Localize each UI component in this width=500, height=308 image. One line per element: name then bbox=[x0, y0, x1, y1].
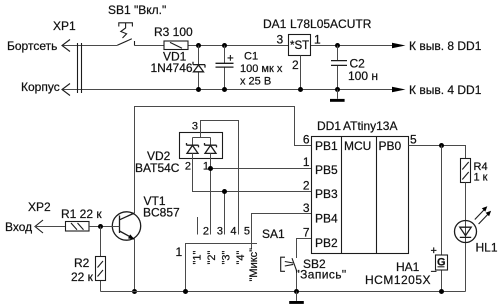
node junction C1 bottom bbox=[222, 87, 227, 92]
svg-text:R3 100: R3 100 bbox=[154, 25, 193, 39]
svg-text:PB5: PB5 bbox=[315, 163, 338, 177]
wire SA1 Микс to DD1 PB4 bbox=[252, 214, 312, 250]
node junction SA1 pin 1 / ground rail bbox=[183, 289, 188, 294]
svg-text:BAT54C: BAT54C bbox=[135, 161, 180, 175]
microcontroller DD1 bbox=[312, 137, 409, 254]
svg-text:1 к: 1 к bbox=[474, 172, 488, 184]
svg-text:Бортсеть: Бортсеть bbox=[7, 39, 57, 53]
svg-text:"3": "3" bbox=[221, 250, 233, 264]
wire SB2 to ground rail bbox=[296, 272, 298, 292]
wire DA1 pin 2 to bottom rail bbox=[300, 56, 302, 90]
node junction C1 top bbox=[222, 43, 227, 48]
svg-text:22 к: 22 к bbox=[71, 270, 94, 284]
resistor R4 bbox=[461, 159, 471, 183]
svg-text:6: 6 bbox=[303, 133, 310, 147]
svg-text:3: 3 bbox=[277, 33, 284, 47]
svg-text:C1: C1 bbox=[244, 51, 258, 63]
resistor R3 bbox=[164, 41, 188, 50]
svg-text:HA1: HA1 bbox=[396, 260, 420, 274]
resistor R1 bbox=[66, 222, 90, 232]
svg-text:4: 4 bbox=[230, 226, 236, 238]
node junction C2 bottom bbox=[335, 87, 340, 92]
svg-text:DA1: DA1 bbox=[263, 17, 287, 31]
voltage regulator DA1 bbox=[289, 35, 311, 56]
wire R1 to base node bbox=[89, 226, 101, 228]
wire VT1 emitter to bottom rail bbox=[134, 239, 136, 291]
svg-text:MCU: MCU bbox=[344, 139, 371, 153]
svg-text:3: 3 bbox=[303, 201, 310, 215]
zener diode VD1 bbox=[193, 62, 205, 72]
node junction PB3 / SA1 bbox=[222, 189, 227, 194]
svg-text:К выв. 4 DD1: К выв. 4 DD1 bbox=[409, 83, 482, 97]
wire XP2 to R1 bbox=[35, 226, 66, 228]
node junction VD1 bottom bbox=[196, 87, 201, 92]
svg-text:5: 5 bbox=[244, 226, 250, 238]
node junction PB0 / HA1 bbox=[439, 143, 444, 148]
node arrow to pin 4 DD1 bbox=[392, 87, 406, 93]
svg-text:+: + bbox=[431, 245, 437, 257]
wire HA1 branch bbox=[441, 146, 443, 292]
wire R2 branch bbox=[100, 227, 102, 292]
svg-text:ATtiny13A: ATtiny13A bbox=[343, 119, 397, 133]
svg-text:1N4746: 1N4746 bbox=[151, 61, 193, 75]
wire R4 to HL1 and bottom rail bbox=[465, 183, 467, 292]
svg-text:HL1: HL1 bbox=[476, 241, 498, 255]
node junction R1 / R2 / VT1 base bbox=[98, 224, 103, 229]
buzzer HA1 bbox=[431, 245, 448, 278]
svg-text:2: 2 bbox=[292, 58, 299, 72]
svg-text:"Запись": "Запись" bbox=[296, 268, 347, 282]
wire VD2 pin 3 to SA1 bbox=[201, 121, 239, 235]
value 100 мк х 25 В bbox=[240, 63, 283, 88]
capacitor C2 bbox=[331, 61, 347, 66]
wire C1 branch bbox=[224, 46, 226, 90]
svg-text:HCM1205X: HCM1205X bbox=[365, 273, 431, 287]
svg-text:"4": "4" bbox=[235, 250, 247, 264]
svg-text:PB0: PB0 bbox=[379, 139, 402, 153]
svg-text:PB2: PB2 bbox=[315, 236, 338, 250]
switch SA1 common bus to ground rail bbox=[186, 244, 258, 292]
svg-text:XP2: XP2 bbox=[28, 200, 51, 214]
svg-text:2: 2 bbox=[203, 226, 209, 238]
ground below C2 bbox=[330, 90, 345, 102]
wire VD2 pin 1 to DD1 PB5 and SA1 bbox=[211, 153, 312, 234]
ground below SB2 bbox=[289, 292, 304, 304]
svg-text:"1": "1" bbox=[192, 250, 204, 264]
svg-text:*ST: *ST bbox=[290, 40, 309, 52]
svg-text:3: 3 bbox=[192, 121, 198, 133]
svg-text:PB4: PB4 bbox=[315, 212, 338, 226]
svg-text:"Микс": "Микс" bbox=[248, 248, 260, 282]
switch SB1 bbox=[117, 23, 134, 46]
node junction +5V / C2 top bbox=[335, 43, 340, 48]
node junction VT1 emitter / ground rail bbox=[132, 289, 137, 294]
svg-text:100 н: 100 н bbox=[348, 69, 378, 83]
wire DD1 PB2 to SB2 bbox=[297, 239, 312, 259]
svg-text:"2": "2" bbox=[206, 250, 218, 264]
svg-text:−: − bbox=[431, 266, 437, 278]
wire common bottom rail from XP1 to output arrow bbox=[62, 89, 392, 91]
wire SA1 position 1 stub bbox=[197, 217, 199, 235]
svg-text:К выв. 8 DD1: К выв. 8 DD1 bbox=[409, 39, 482, 53]
pushbutton SB2 bbox=[281, 257, 297, 272]
svg-text:R2: R2 bbox=[74, 256, 90, 270]
svg-text:1: 1 bbox=[176, 245, 183, 259]
node junction R3 / VD1 top bbox=[196, 43, 201, 48]
node junction VD2 pin 1 / PB5 bbox=[208, 166, 213, 171]
LED HL1 bbox=[455, 206, 492, 242]
svg-text:7: 7 bbox=[303, 226, 310, 240]
svg-text:х 25 В: х 25 В bbox=[240, 76, 271, 88]
wire VD1 branch bbox=[198, 46, 200, 90]
svg-text:PB3: PB3 bbox=[315, 187, 338, 201]
wire DD1 PB0 pin 5 to R4 and HA1 bbox=[409, 146, 466, 159]
svg-text:1: 1 bbox=[203, 161, 209, 173]
node junction HA1 / ground rail bbox=[439, 289, 444, 294]
node arrow to pin 8 DD1 bbox=[392, 43, 406, 49]
svg-text:3: 3 bbox=[217, 226, 223, 238]
svg-text:PB1: PB1 bbox=[315, 139, 338, 153]
svg-text:100 мк х: 100 мк х bbox=[240, 63, 283, 75]
wire VT1 collector to DD1 PB1 bbox=[135, 107, 312, 214]
svg-text:SA1: SA1 bbox=[262, 227, 285, 241]
svg-text:R1 22 к: R1 22 к bbox=[61, 207, 102, 221]
resistor R2 bbox=[96, 257, 106, 281]
svg-text:2: 2 bbox=[185, 161, 191, 173]
connector XP1 bbox=[62, 40, 82, 96]
svg-text:SB1 "Вкл.": SB1 "Вкл." bbox=[108, 3, 166, 17]
svg-text:Корпус: Корпус bbox=[21, 80, 60, 94]
wire VD2 pin 2 to DD1 PB3 and SA1 bbox=[193, 153, 312, 234]
capacitor C1 polarized bbox=[216, 55, 234, 67]
svg-text:DD1: DD1 bbox=[317, 119, 341, 133]
transistor VT1 bbox=[112, 212, 140, 240]
svg-text:Вход: Вход bbox=[5, 220, 32, 234]
svg-text:1: 1 bbox=[314, 33, 321, 47]
diode pair VD2 bbox=[180, 133, 223, 159]
svg-text:XP1: XP1 bbox=[53, 19, 76, 33]
connector XP2 bbox=[35, 220, 43, 233]
svg-text:BC857: BC857 bbox=[143, 206, 180, 220]
wire +12V top rail from XP1 through SB1 and R3 to DA1 and output arrow bbox=[62, 45, 392, 47]
svg-text:L78L05ACUTR: L78L05ACUTR bbox=[290, 17, 372, 31]
node junction SB2 / ground rail bbox=[294, 289, 299, 294]
svg-text:5: 5 bbox=[410, 133, 417, 147]
svg-text:1: 1 bbox=[303, 155, 310, 169]
svg-text:2: 2 bbox=[303, 179, 310, 193]
wire VT1 base bbox=[101, 226, 120, 228]
wire C2 branch bbox=[337, 46, 339, 90]
node junction DA1 pin 2 bbox=[298, 87, 303, 92]
wire lower ground rail bbox=[101, 291, 466, 293]
